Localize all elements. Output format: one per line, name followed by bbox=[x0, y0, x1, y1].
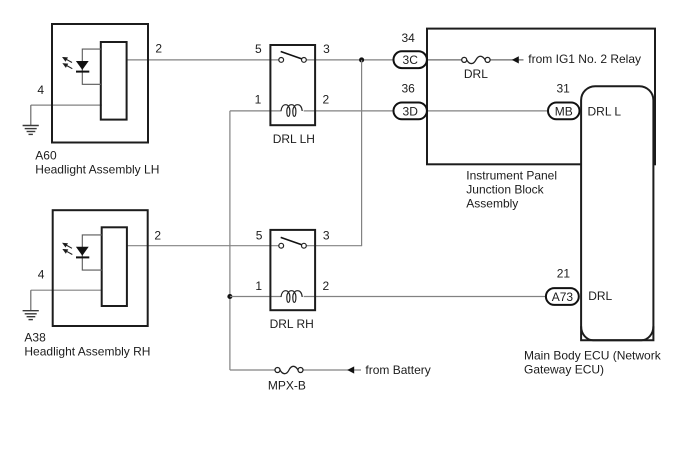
pin 1 label DRL RH bbox=[255, 279, 262, 293]
pin 5 label DRL RH bbox=[256, 228, 263, 242]
svg-text:DRL LH: DRL LH bbox=[273, 132, 315, 146]
svg-text:Junction Block: Junction Block bbox=[466, 183, 544, 197]
pin 36 label bbox=[402, 82, 416, 96]
svg-text:2: 2 bbox=[154, 228, 161, 242]
headlight assembly LH box A60 bbox=[52, 24, 148, 143]
LED emission arrows A60 bbox=[63, 58, 72, 69]
svg-text:31: 31 bbox=[557, 82, 571, 96]
svg-text:4: 4 bbox=[37, 83, 44, 97]
svg-text:3C: 3C bbox=[403, 53, 419, 67]
label DRL L bbox=[588, 105, 622, 119]
pin 21 label bbox=[557, 266, 571, 280]
arrow from Battery bbox=[347, 366, 354, 373]
label A38 bbox=[24, 330, 46, 344]
ground symbol A60 bbox=[23, 126, 39, 135]
relay DRL RH coil bbox=[281, 291, 302, 303]
arrow from IG1 No.2 Relay bbox=[512, 56, 519, 63]
label from Battery bbox=[365, 363, 430, 377]
svg-text:5: 5 bbox=[256, 228, 263, 242]
pin 4 label A38 bbox=[38, 267, 45, 281]
svg-text:Instrument Panel: Instrument Panel bbox=[466, 169, 557, 183]
label Main Body ECU bbox=[524, 348, 662, 376]
pin 2 label DRL LH bbox=[323, 93, 330, 107]
label DRL LH bbox=[273, 132, 315, 146]
label Headlight Assembly RH bbox=[24, 344, 150, 358]
relay DRL LH box bbox=[270, 45, 315, 125]
svg-text:4: 4 bbox=[38, 267, 45, 281]
relay DRL RH box bbox=[270, 230, 315, 310]
svg-text:A73: A73 bbox=[552, 290, 574, 304]
LED emission arrows A38 bbox=[63, 243, 72, 254]
pin 4 label A60 bbox=[37, 83, 44, 97]
label Headlight Assembly LH bbox=[35, 163, 159, 177]
headlight assembly RH box A38 bbox=[53, 210, 148, 326]
connector A73 bbox=[546, 288, 579, 305]
relay DRL LH switch contacts bbox=[279, 52, 306, 63]
main body ECU rounded box bbox=[581, 86, 653, 340]
wire DRL LH pin3 to 3C bbox=[306, 59, 393, 61]
node junction dot at 3C branch bbox=[359, 57, 364, 62]
svg-text:MB: MB bbox=[555, 104, 573, 118]
pin 31 label bbox=[557, 82, 571, 96]
wire vertical branch to DRL RH pin3 bbox=[361, 60, 363, 246]
label MPX-B bbox=[268, 379, 306, 393]
LED diode A60 bbox=[76, 61, 89, 72]
svg-text:A60: A60 bbox=[35, 148, 57, 162]
wire DRL LH pin1 to vertical bus bbox=[230, 110, 282, 112]
LED wiring loop A60 bbox=[82, 49, 101, 84]
wire DRL LH pin2 to 3D bbox=[304, 110, 394, 112]
wire A38 pin4 to ground bbox=[31, 290, 103, 310]
wire A60 pin2 to DRL LH pin5 bbox=[127, 59, 279, 61]
svg-text:MPX-B: MPX-B bbox=[268, 379, 306, 393]
svg-text:DRL L: DRL L bbox=[588, 105, 622, 119]
svg-text:A38: A38 bbox=[24, 330, 46, 344]
wire bus to MPX-B fuse and battery arrow bbox=[230, 369, 361, 371]
label DRL fuse bbox=[464, 67, 488, 81]
fuse MPX-B bbox=[275, 366, 303, 373]
svg-text:1: 1 bbox=[255, 279, 262, 293]
svg-text:36: 36 bbox=[402, 82, 416, 96]
svg-text:from Battery: from Battery bbox=[365, 363, 430, 377]
pin 5 label DRL LH bbox=[255, 42, 262, 56]
svg-text:Headlight Assembly RH: Headlight Assembly RH bbox=[24, 344, 150, 358]
svg-text:3D: 3D bbox=[403, 104, 419, 118]
svg-text:2: 2 bbox=[323, 93, 330, 107]
svg-text:from IG1 No. 2 Relay: from IG1 No. 2 Relay bbox=[528, 52, 641, 66]
svg-text:5: 5 bbox=[255, 42, 262, 56]
pin 1 label DRL LH bbox=[255, 93, 262, 107]
fuse DRL inside junction block bbox=[462, 56, 490, 63]
connector 3C bbox=[394, 51, 427, 68]
ground symbol A38 bbox=[23, 311, 39, 320]
label A60 bbox=[35, 148, 57, 162]
label DRL RH bbox=[270, 317, 314, 331]
svg-text:2: 2 bbox=[323, 279, 330, 293]
relay DRL LH coil bbox=[281, 105, 302, 117]
wire DRL RH pin2 to A73 bbox=[304, 296, 546, 298]
LED diode A38 bbox=[76, 247, 89, 258]
svg-text:3: 3 bbox=[323, 228, 330, 242]
svg-text:Main Body ECU (Network: Main Body ECU (Network bbox=[524, 348, 662, 362]
instrument panel junction block box bbox=[427, 29, 655, 165]
svg-text:3: 3 bbox=[323, 42, 330, 56]
svg-text:21: 21 bbox=[557, 266, 571, 280]
svg-text:Assembly: Assembly bbox=[466, 197, 518, 211]
pin 3 label DRL RH bbox=[323, 228, 330, 242]
relay DRL RH switch contacts bbox=[279, 237, 306, 248]
svg-text:DRL: DRL bbox=[464, 67, 488, 81]
node junction dot on bus at DRL RH pin1 bbox=[227, 294, 232, 299]
wire vertical bus x=230 bbox=[229, 111, 231, 370]
pin 34 label bbox=[402, 31, 416, 45]
label from IG1 No. 2 Relay bbox=[528, 52, 641, 66]
svg-text:1: 1 bbox=[255, 93, 262, 107]
pin 2 label A38 bbox=[154, 228, 161, 242]
svg-text:DRL: DRL bbox=[588, 289, 612, 303]
wire DRL RH pin3 to vertical branch bbox=[306, 245, 362, 247]
label DRL at A73 bbox=[588, 289, 612, 303]
LED wiring loop A38 bbox=[82, 235, 102, 270]
pin 2 label DRL RH bbox=[323, 279, 330, 293]
connector 3D bbox=[394, 103, 427, 120]
wire inside junction block 3C to DRL fuse and IG1 arrow bbox=[428, 59, 524, 61]
wire A60 pin4 to ground bbox=[31, 105, 102, 125]
connector MB bbox=[548, 103, 580, 120]
pin 3 label DRL LH bbox=[323, 42, 330, 56]
svg-text:DRL RH: DRL RH bbox=[270, 317, 314, 331]
svg-text:34: 34 bbox=[402, 31, 416, 45]
label Instrument Panel Junction Block Assembly bbox=[466, 169, 557, 211]
wire 3D to MB inside junction block bbox=[428, 110, 548, 112]
svg-text:2: 2 bbox=[155, 42, 162, 56]
pin 2 label A60 bbox=[155, 42, 162, 56]
svg-text:Gateway ECU): Gateway ECU) bbox=[524, 362, 604, 376]
wire A38 pin2 to DRL RH pin5 bbox=[127, 245, 279, 247]
svg-text:Headlight Assembly LH: Headlight Assembly LH bbox=[35, 163, 159, 177]
wire DRL RH pin1 from bus bbox=[230, 296, 282, 298]
